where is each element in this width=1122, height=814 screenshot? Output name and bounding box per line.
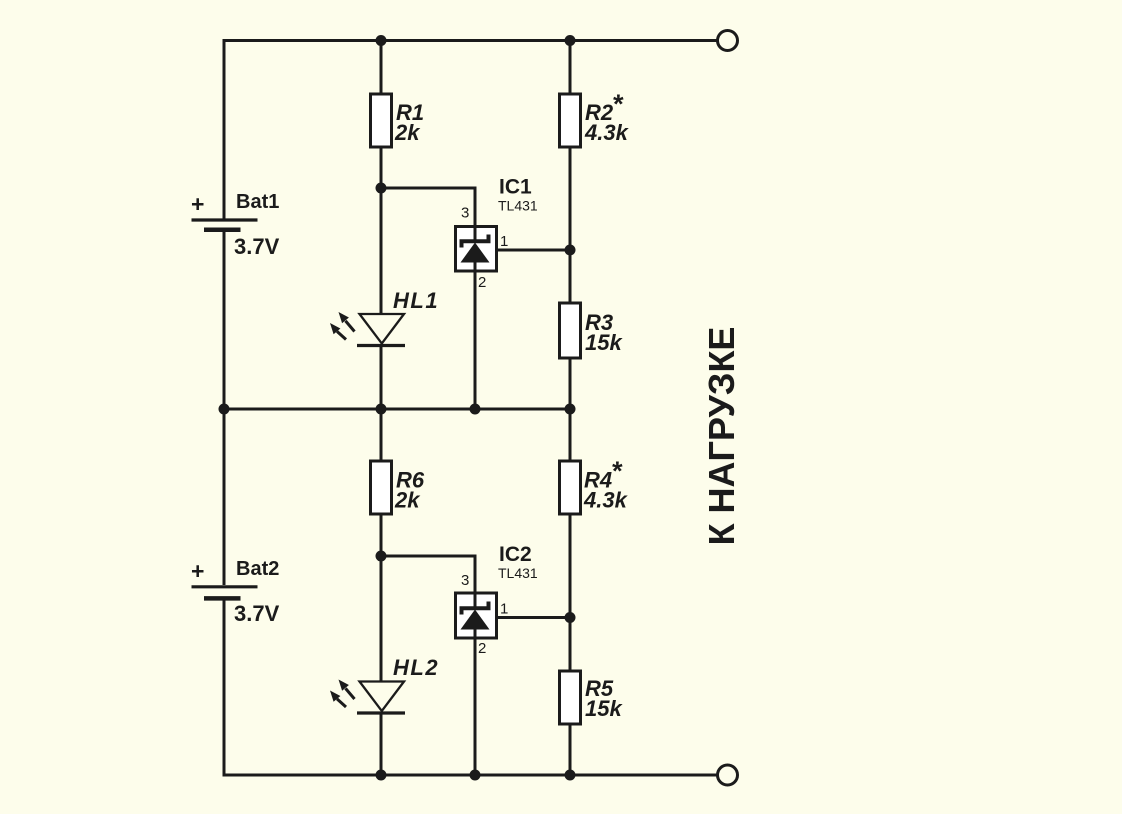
resistor R3 xyxy=(560,303,581,358)
resistor R4 xyxy=(560,461,581,514)
wire R4 top xyxy=(569,409,572,461)
node R6/IC2 xyxy=(376,551,387,562)
wire HL2 cathode to bottom rail xyxy=(380,713,383,775)
svg-text:TL431: TL431 xyxy=(498,565,538,581)
terminal bottom xyxy=(718,765,738,785)
wire R6 top xyxy=(380,409,383,461)
wire bottom rail xyxy=(224,774,717,777)
svg-text:*: * xyxy=(612,89,624,119)
wire R1 top xyxy=(380,41,383,95)
node mid IC1 xyxy=(470,404,481,415)
wire node R6-IC2 link xyxy=(381,556,475,610)
svg-text:15k: 15k xyxy=(585,330,623,355)
resistor R2 xyxy=(560,94,581,147)
wire R6 bottom to LED HL2 xyxy=(380,514,383,682)
svg-text:4.3k: 4.3k xyxy=(584,120,630,145)
svg-text:TL431: TL431 xyxy=(498,198,538,214)
node mid HL1 xyxy=(376,404,387,415)
svg-text:3.7V: 3.7V xyxy=(234,601,280,626)
wire R2 bottom to R3 top xyxy=(569,147,572,303)
svg-text:3: 3 xyxy=(461,572,469,589)
svg-text:2: 2 xyxy=(478,274,486,291)
node IC1 ref xyxy=(565,245,576,256)
node top R1 xyxy=(376,35,387,46)
terminal top xyxy=(718,31,738,51)
svg-text:IC2: IC2 xyxy=(499,543,532,566)
wire R3 bottom xyxy=(569,358,572,409)
wire left rail upper xyxy=(223,39,226,219)
resistor R6 xyxy=(371,461,392,514)
node mid R3 xyxy=(565,404,576,415)
svg-text:HL2: HL2 xyxy=(393,655,439,680)
svg-text:2k: 2k xyxy=(394,488,421,513)
svg-text:HL1: HL1 xyxy=(393,288,439,313)
wire IC2 anode down xyxy=(474,629,477,775)
shunt regulator IC2 TL431 xyxy=(456,593,497,638)
wire R5 bottom xyxy=(569,724,572,775)
battery Bat1 xyxy=(192,220,258,230)
wire node R1-IC1 link xyxy=(381,188,475,243)
wire left rail mid xyxy=(223,232,226,586)
wire R4 bottom to R5 top xyxy=(569,514,572,671)
svg-text:+: + xyxy=(191,558,204,584)
shunt regulator IC1 TL431 xyxy=(456,227,497,272)
wire IC1 anode down xyxy=(474,262,477,409)
svg-text:3: 3 xyxy=(461,205,469,222)
wire middle rail xyxy=(224,408,570,411)
wire left rail lower xyxy=(223,600,226,777)
svg-text:15k: 15k xyxy=(585,696,623,721)
node top R2 xyxy=(565,35,576,46)
wire IC2 ref to divider xyxy=(496,616,570,619)
node mid left xyxy=(219,404,230,415)
svg-text:4.3k: 4.3k xyxy=(583,488,629,513)
svg-text:1: 1 xyxy=(500,601,508,618)
node bottom HL2 xyxy=(376,770,387,781)
node bottom IC2 xyxy=(470,770,481,781)
svg-text:+: + xyxy=(191,191,204,217)
svg-text:1: 1 xyxy=(500,233,508,250)
battery Bat2 xyxy=(192,587,258,599)
wire IC1 ref to divider xyxy=(496,249,570,252)
svg-text:2: 2 xyxy=(478,640,486,657)
svg-text:IC1: IC1 xyxy=(499,176,532,199)
svg-text:Bat2: Bat2 xyxy=(236,558,279,580)
wire R2 top xyxy=(569,41,572,95)
svg-text:Bat1: Bat1 xyxy=(236,191,279,213)
node R1/IC1 xyxy=(376,183,387,194)
svg-text:2k: 2k xyxy=(394,120,421,145)
wire top rail xyxy=(224,39,717,42)
resistor R5 xyxy=(560,671,581,724)
node IC2 ref xyxy=(565,612,576,623)
svg-text:К НАГРУЗКЕ: К НАГРУЗКЕ xyxy=(701,327,742,546)
LED HL1 xyxy=(330,312,405,346)
wire R1 bottom to LED HL1 xyxy=(380,147,383,314)
node bottom R5 xyxy=(565,770,576,781)
node junction dots xyxy=(219,35,576,781)
LED HL2 xyxy=(330,680,405,714)
svg-text:*: * xyxy=(611,456,623,486)
svg-text:3.7V: 3.7V xyxy=(234,234,280,259)
wire HL1 cathode to middle rail xyxy=(380,346,383,410)
resistor R1 xyxy=(371,94,392,147)
